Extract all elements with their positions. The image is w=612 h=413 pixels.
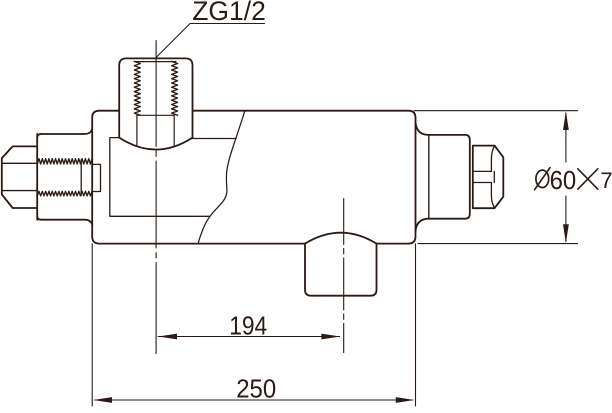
svg-text:194: 194 bbox=[229, 312, 267, 340]
svg-text:60: 60 bbox=[550, 167, 577, 195]
svg-text:ZG1/2: ZG1/2 bbox=[192, 0, 266, 26]
svg-text:7: 7 bbox=[600, 168, 612, 193]
svg-text:250: 250 bbox=[236, 376, 276, 404]
